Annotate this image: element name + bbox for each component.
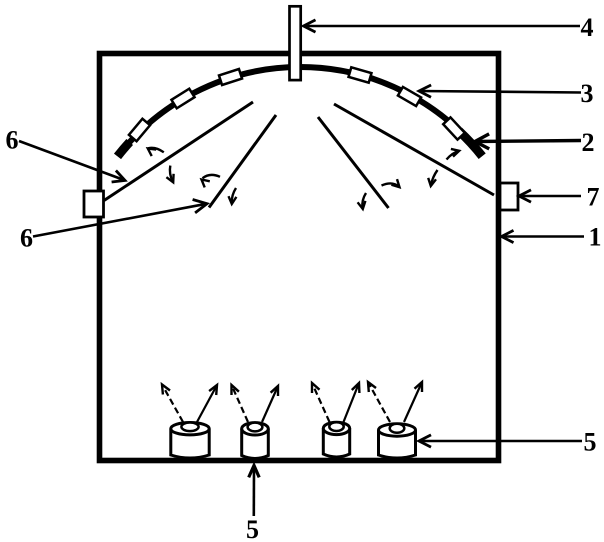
flow arrow A4 bbox=[229, 188, 237, 204]
leader arrow 4 bbox=[304, 20, 581, 32]
leader arrow 6 upper bbox=[19, 141, 125, 182]
flow arrow B4 bbox=[358, 193, 366, 209]
flow arrow A3 bbox=[202, 175, 221, 188]
source 5 (4) spray arrows bbox=[368, 382, 390, 422]
leader arrow 5 right bbox=[419, 435, 582, 447]
svg-text:7: 7 bbox=[587, 183, 600, 212]
svg-text:3: 3 bbox=[581, 79, 594, 108]
flow arrow A1 bbox=[148, 148, 164, 156]
leader arrow 7 bbox=[519, 190, 581, 202]
left wall port 6 bbox=[84, 191, 104, 217]
substrate 3 (4) bbox=[349, 67, 372, 82]
svg-text:4: 4 bbox=[581, 13, 594, 42]
source 5 (1) spray arrows bbox=[162, 385, 183, 423]
flow arrow A2 bbox=[166, 166, 173, 183]
source 5 (1) crucible bbox=[171, 423, 209, 459]
right wall port 7 bbox=[500, 183, 518, 210]
dome arc 2 bbox=[118, 67, 482, 156]
chamber wall 1 bbox=[100, 54, 499, 461]
flow arrow B2 bbox=[428, 170, 437, 186]
rod 4 bbox=[290, 6, 301, 80]
source 5 (2) crucible bbox=[242, 423, 269, 459]
flow arrow B3 bbox=[382, 179, 400, 187]
source 5 (2) spray arrows bbox=[232, 385, 249, 422]
source 5 (3) crucible bbox=[323, 422, 349, 457]
baffle line L1 bbox=[104, 102, 253, 201]
flow arrow B1 bbox=[447, 149, 460, 160]
svg-text:1: 1 bbox=[589, 223, 602, 252]
leader arrow 2 bbox=[475, 134, 581, 149]
substrate 3 (5) bbox=[398, 87, 421, 106]
dome arc left thick end bbox=[118, 142, 130, 156]
substrate 3 (2) bbox=[171, 89, 194, 109]
leader arrow 5 bottom bbox=[249, 466, 260, 517]
leader arrow 3 bbox=[419, 85, 581, 97]
baffle line L2 bbox=[209, 115, 276, 208]
baffle line R1 bbox=[334, 104, 494, 195]
svg-text:2: 2 bbox=[582, 128, 595, 157]
svg-text:6: 6 bbox=[20, 224, 33, 253]
dome arc right thick end bbox=[459, 131, 482, 156]
source 5 (3) spray arrows bbox=[312, 383, 330, 422]
substrate 3 (3) bbox=[219, 69, 242, 85]
substrate 3 (6) bbox=[443, 117, 465, 139]
substrate 3 (1) bbox=[129, 119, 150, 142]
leader arrow 1 bbox=[502, 230, 585, 242]
source 5 (4) crucible bbox=[379, 424, 416, 458]
svg-text:5: 5 bbox=[246, 515, 259, 542]
baffle line R2 bbox=[318, 117, 389, 208]
svg-text:5: 5 bbox=[584, 428, 597, 457]
leader arrow 6 lower bbox=[33, 200, 207, 237]
svg-text:6: 6 bbox=[6, 126, 19, 155]
